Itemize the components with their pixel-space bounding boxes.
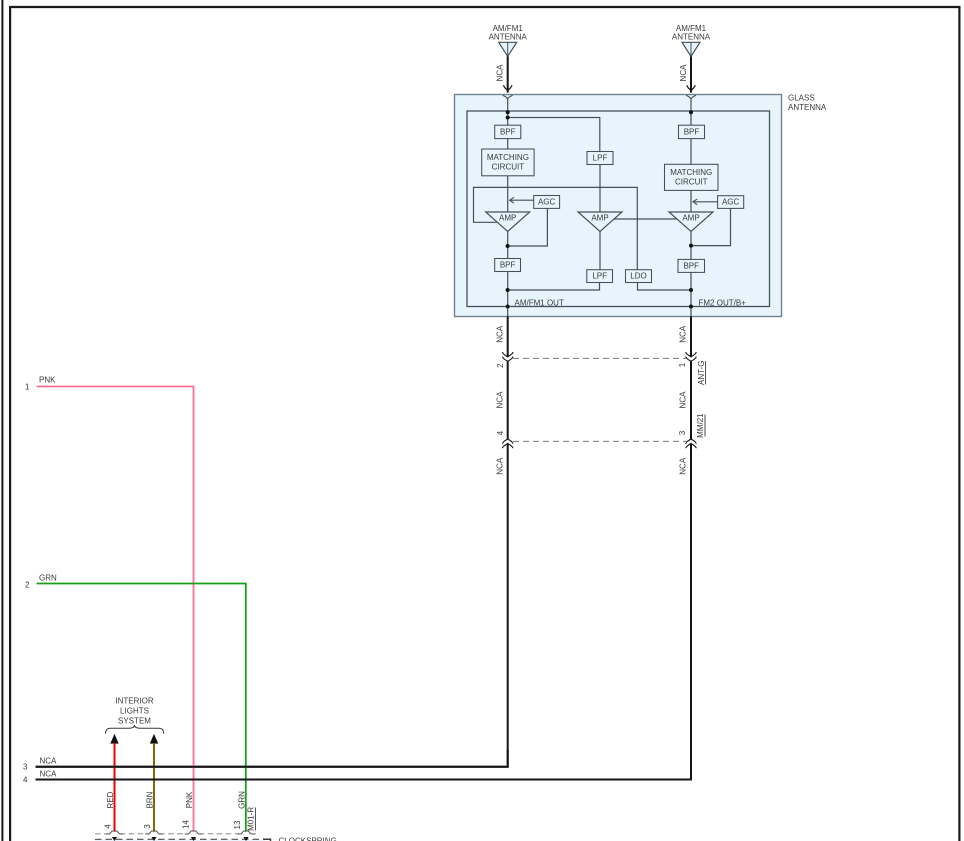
svg-text:ANTENNA: ANTENNA xyxy=(672,33,711,42)
svg-text:M01-R: M01-R xyxy=(247,807,256,831)
svg-text:CLOCKSPRING: CLOCKSPRING xyxy=(279,837,337,841)
svg-text:3: 3 xyxy=(143,824,152,829)
svg-text:NCA: NCA xyxy=(679,64,688,82)
svg-text:SYSTEM: SYSTEM xyxy=(118,717,151,726)
svg-text:MATCHING: MATCHING xyxy=(670,168,712,177)
svg-text:BRN: BRN xyxy=(146,791,155,808)
svg-text:NCA: NCA xyxy=(495,457,504,475)
svg-text:CIRCUIT: CIRCUIT xyxy=(492,163,525,172)
svg-text:INTERIOR: INTERIOR xyxy=(115,697,153,706)
svg-text:NCA: NCA xyxy=(679,457,688,475)
svg-text:RED: RED xyxy=(106,791,115,808)
svg-text:14: 14 xyxy=(181,820,190,829)
svg-text:AGC: AGC xyxy=(538,197,556,206)
svg-text:PNK: PNK xyxy=(39,375,56,384)
svg-text:NCA: NCA xyxy=(496,64,505,82)
svg-text:13: 13 xyxy=(233,820,242,829)
svg-text:NCA: NCA xyxy=(495,391,504,409)
svg-text:1: 1 xyxy=(678,362,687,367)
svg-text:GRN: GRN xyxy=(238,791,247,809)
svg-text:AMP: AMP xyxy=(591,213,608,222)
svg-text:MM/21: MM/21 xyxy=(696,413,705,438)
svg-text:4: 4 xyxy=(23,776,28,785)
svg-text:AMP: AMP xyxy=(499,213,516,222)
svg-text:NCA: NCA xyxy=(495,325,504,343)
svg-text:GRN: GRN xyxy=(39,573,57,582)
svg-text:NCA: NCA xyxy=(40,756,58,765)
svg-text:ANT-G: ANT-G xyxy=(697,361,706,385)
svg-text:CIRCUIT: CIRCUIT xyxy=(675,178,708,187)
svg-text:NCA: NCA xyxy=(679,325,688,343)
svg-text:LPF: LPF xyxy=(592,272,607,281)
svg-text:GLASS: GLASS xyxy=(788,93,815,102)
svg-text:FM2 OUT/B+: FM2 OUT/B+ xyxy=(699,298,747,307)
svg-text:LIGHTS: LIGHTS xyxy=(120,707,149,716)
svg-text:AGC: AGC xyxy=(722,197,740,206)
svg-text:AMP: AMP xyxy=(682,213,699,222)
svg-text:4: 4 xyxy=(496,430,505,435)
svg-text:ANTENNA: ANTENNA xyxy=(788,103,827,112)
svg-text:NCA: NCA xyxy=(679,391,688,409)
svg-text:LPF: LPF xyxy=(593,153,608,162)
svg-text:MATCHING: MATCHING xyxy=(487,153,529,162)
svg-text:BPF: BPF xyxy=(500,260,516,269)
svg-text:BPF: BPF xyxy=(684,127,700,136)
svg-text:2: 2 xyxy=(25,580,30,589)
svg-text:2: 2 xyxy=(496,363,505,368)
svg-text:PNK: PNK xyxy=(185,791,194,808)
svg-text:NCA: NCA xyxy=(40,770,58,779)
svg-text:1: 1 xyxy=(25,382,30,391)
svg-text:BPF: BPF xyxy=(500,127,516,136)
svg-text:ANTENNA: ANTENNA xyxy=(489,33,528,42)
svg-text:3: 3 xyxy=(678,430,687,435)
svg-text:3: 3 xyxy=(23,762,28,771)
svg-text:LDO: LDO xyxy=(630,272,646,281)
svg-text:AM/FM1 OUT: AM/FM1 OUT xyxy=(515,298,564,307)
svg-text:BPF: BPF xyxy=(683,261,699,270)
svg-text:4: 4 xyxy=(104,824,113,829)
